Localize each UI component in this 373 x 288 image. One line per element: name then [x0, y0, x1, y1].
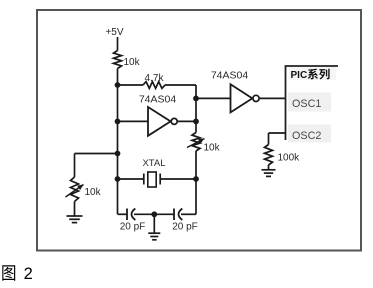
svg-text:PIC: PIC: [291, 70, 308, 81]
svg-text:10k: 10k: [85, 187, 102, 198]
svg-text:10k: 10k: [124, 57, 141, 68]
svg-text:100k: 100k: [278, 153, 301, 164]
svg-text:4.7k: 4.7k: [145, 73, 165, 84]
svg-text:20 pF: 20 pF: [120, 222, 146, 233]
svg-text:74AS04: 74AS04: [139, 94, 177, 106]
svg-text:+5V: +5V: [105, 27, 123, 38]
svg-text:XTAL: XTAL: [142, 158, 165, 169]
svg-text:20 pF: 20 pF: [172, 222, 198, 233]
svg-text:10k: 10k: [204, 143, 221, 154]
svg-text:OSC2: OSC2: [292, 130, 321, 142]
svg-text:OSC1: OSC1: [292, 98, 321, 110]
svg-text:74AS04: 74AS04: [211, 70, 249, 82]
svg-text:2: 2: [24, 265, 33, 283]
